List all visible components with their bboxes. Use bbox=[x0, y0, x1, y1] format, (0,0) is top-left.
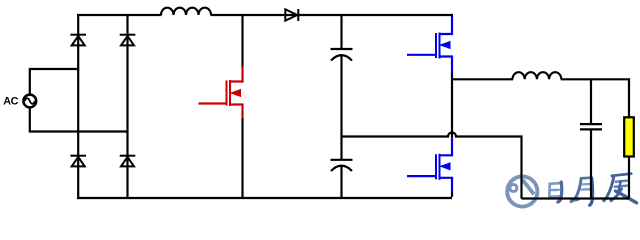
wire Q2 gate lead bbox=[407, 54, 436, 56]
wire bridge left leg bbox=[77, 15, 79, 198]
Q1 channel bar bbox=[229, 80, 231, 106]
wire top rail bbox=[77, 14, 453, 16]
resistor RL (load) bbox=[624, 117, 634, 156]
wire Q1 source to bottom rail bbox=[241, 119, 243, 199]
inductor L1 (PFC boost) bbox=[161, 8, 211, 15]
logo char yue bbox=[571, 178, 592, 206]
AC source V1 bbox=[23, 95, 36, 108]
Q2 source stub bbox=[440, 57, 453, 74]
transistor Q3 (lower blue MOSFET) bbox=[407, 138, 452, 193]
Q1 gate bar bbox=[226, 81, 228, 106]
wire Q2 drain lead bbox=[440, 16, 453, 34]
Q2 gate bar bbox=[435, 33, 437, 58]
logo char ri bbox=[549, 182, 561, 202]
wire midrail with hop bbox=[342, 133, 522, 199]
wire AC bottom lead bbox=[30, 108, 128, 131]
logo ring bbox=[507, 176, 537, 206]
transistor Q2 (upper blue MOSFET) bbox=[407, 16, 452, 73]
diode D4 (bridge lower-right) bbox=[120, 156, 136, 167]
wire C3 top lead bbox=[590, 79, 592, 124]
Q3 body arrow bbox=[441, 163, 451, 170]
Q3 channel bar bbox=[439, 154, 441, 180]
logo diagonal bbox=[522, 180, 534, 195]
wire output return bbox=[522, 197, 630, 199]
Q3 gate bar bbox=[435, 154, 437, 179]
inductor L2 (output filter) bbox=[513, 72, 562, 79]
wire half-bridge midpoint bbox=[451, 73, 453, 138]
wire bridge right leg bbox=[126, 15, 128, 198]
Q3 source stub bbox=[440, 178, 453, 193]
wire C3 bottom lead bbox=[590, 130, 592, 199]
wire L2 to load top bbox=[561, 79, 629, 117]
wire AC top lead bbox=[30, 69, 78, 94]
Q1 source stub bbox=[230, 105, 243, 120]
Q2 body arrow bbox=[441, 42, 451, 49]
wire bottom rail bbox=[77, 197, 452, 199]
wire C1 to midrail bbox=[340, 56, 342, 137]
svg-text:AC: AC bbox=[3, 95, 18, 107]
diode D2 (bridge upper-right) bbox=[120, 35, 136, 46]
Q1 body arrow bbox=[231, 90, 241, 97]
wire Q1 drain to top rail bbox=[241, 15, 243, 67]
transistor Q1 (red PFC MOSFET) bbox=[199, 66, 243, 119]
logo small circle bbox=[510, 185, 517, 192]
wire Q1 gate lead bbox=[199, 102, 227, 104]
diode D1 (bridge upper-left) bbox=[70, 35, 86, 46]
wire C2 leads bbox=[340, 137, 342, 199]
wire midpoint branch to output bbox=[452, 78, 513, 80]
capacitor C2 (lower bus cap) bbox=[331, 160, 353, 171]
diode D3 (bridge lower-left) bbox=[70, 156, 86, 167]
capacitor C3 (output filter) bbox=[580, 124, 602, 129]
wire Q3 drain lead bbox=[440, 138, 453, 156]
watermark logo bbox=[507, 174, 636, 207]
wire load bottom lead bbox=[628, 157, 630, 199]
diode D5 (boost diode) bbox=[285, 9, 298, 21]
logo char chen bbox=[604, 174, 637, 203]
wire DC bus cap lead bbox=[340, 15, 342, 49]
wire Q3 source to bottom rail bbox=[451, 193, 453, 197]
wire Q3 gate lead bbox=[407, 175, 436, 177]
capacitor C1 (upper bus cap) bbox=[331, 49, 353, 61]
wire Q1 drain lead bbox=[230, 66, 243, 82]
Q2 channel bar bbox=[439, 33, 441, 59]
